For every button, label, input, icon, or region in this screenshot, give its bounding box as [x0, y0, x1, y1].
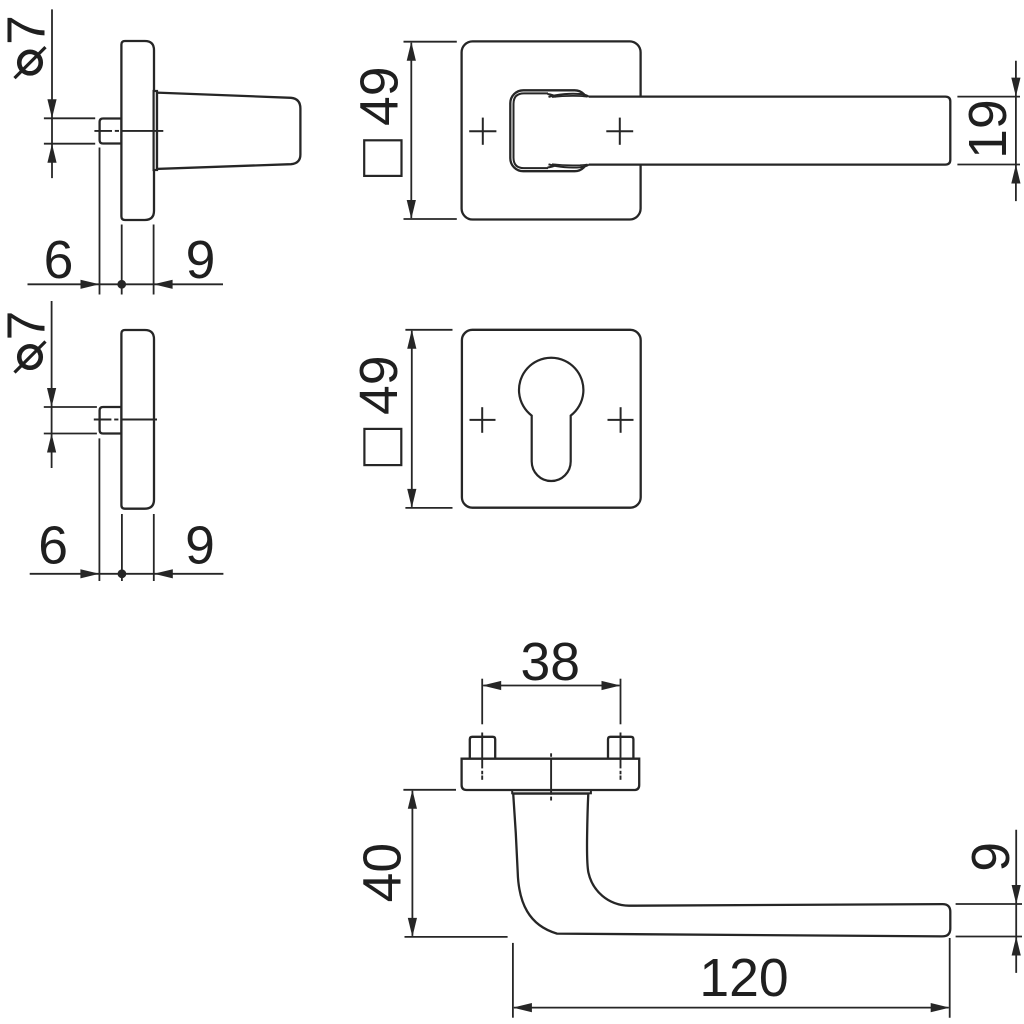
dimension 120	[513, 938, 950, 1018]
neck collar outer contour	[510, 90, 587, 171]
svg-text:6: 6	[38, 517, 68, 576]
dimension 6 / 9 baseline	[30, 438, 224, 581]
grip taper (side)	[157, 93, 300, 169]
neck collar band	[512, 790, 591, 793]
neck collar inner contour	[514, 93, 549, 168]
dimension 6 / 9 baseline	[28, 148, 224, 295]
svg-text:7: 7	[0, 311, 57, 341]
dimension 49 (middle view)	[405, 330, 452, 508]
datum dot	[117, 280, 126, 289]
mounting plate (rosette bottom view)	[462, 759, 640, 790]
escutcheon body (side)	[121, 330, 154, 509]
dimension 38	[482, 679, 620, 725]
datum dot	[118, 569, 127, 578]
svg-text:38: 38	[520, 633, 580, 692]
lever bar (front) white fill	[556, 97, 950, 165]
dimension 19 (lever height)	[957, 61, 1020, 201]
euro profile keyhole	[519, 358, 583, 481]
spindle stub	[100, 119, 122, 144]
square symbol	[364, 140, 401, 176]
screw centerline left	[481, 733, 483, 780]
svg-text:7: 7	[0, 15, 57, 45]
right screw boss	[608, 737, 633, 759]
VIEW 1: handle rosette side view (top-left)	[0, 9, 300, 294]
svg-text:49: 49	[350, 355, 409, 415]
lever bar outline	[589, 97, 951, 165]
dimension o7	[44, 301, 97, 468]
svg-text:6: 6	[44, 231, 74, 290]
dimension o7	[44, 9, 95, 178]
right fixing cross	[606, 118, 633, 145]
square rosette (front)	[462, 41, 641, 219]
VIEW 5: handle profile side view (bottom)	[354, 633, 1022, 1018]
right fixing cross	[608, 407, 634, 433]
svg-text:40: 40	[354, 843, 413, 903]
VIEW 3: escutcheon side view (middle-left)	[0, 301, 223, 581]
VIEW 4: escutcheon front view with keyhole (middle-right)	[350, 330, 641, 508]
VIEW 2: rosette front view with lever (top-right)	[351, 41, 1021, 219]
handle profile (neck + grip)	[513, 794, 950, 937]
centerline through spindle	[94, 419, 157, 421]
dimension 9 (grip height)	[956, 830, 1022, 973]
centerline through spindle	[94, 130, 163, 132]
neck collar (side)	[154, 91, 157, 170]
left fixing cross	[469, 118, 496, 145]
svg-text:120: 120	[699, 949, 788, 1008]
square escutcheon (front)	[462, 330, 641, 508]
left fixing cross	[470, 407, 496, 433]
svg-text:9: 9	[962, 842, 1021, 872]
svg-text:49: 49	[351, 67, 410, 127]
dimension 40	[403, 790, 507, 937]
dimension 49 (top view)	[404, 42, 457, 219]
spindle centerline	[550, 753, 552, 800]
spindle stub	[100, 407, 122, 434]
left screw boss	[470, 737, 495, 759]
square symbol	[364, 429, 401, 465]
neck bottom transition curves	[548, 165, 557, 168]
svg-text:9: 9	[185, 517, 215, 576]
svg-text:19: 19	[959, 99, 1018, 159]
rosette body (side)	[121, 41, 154, 220]
neck top transition curves	[548, 94, 557, 97]
screw centerline right	[620, 733, 622, 780]
svg-text:9: 9	[186, 231, 216, 290]
